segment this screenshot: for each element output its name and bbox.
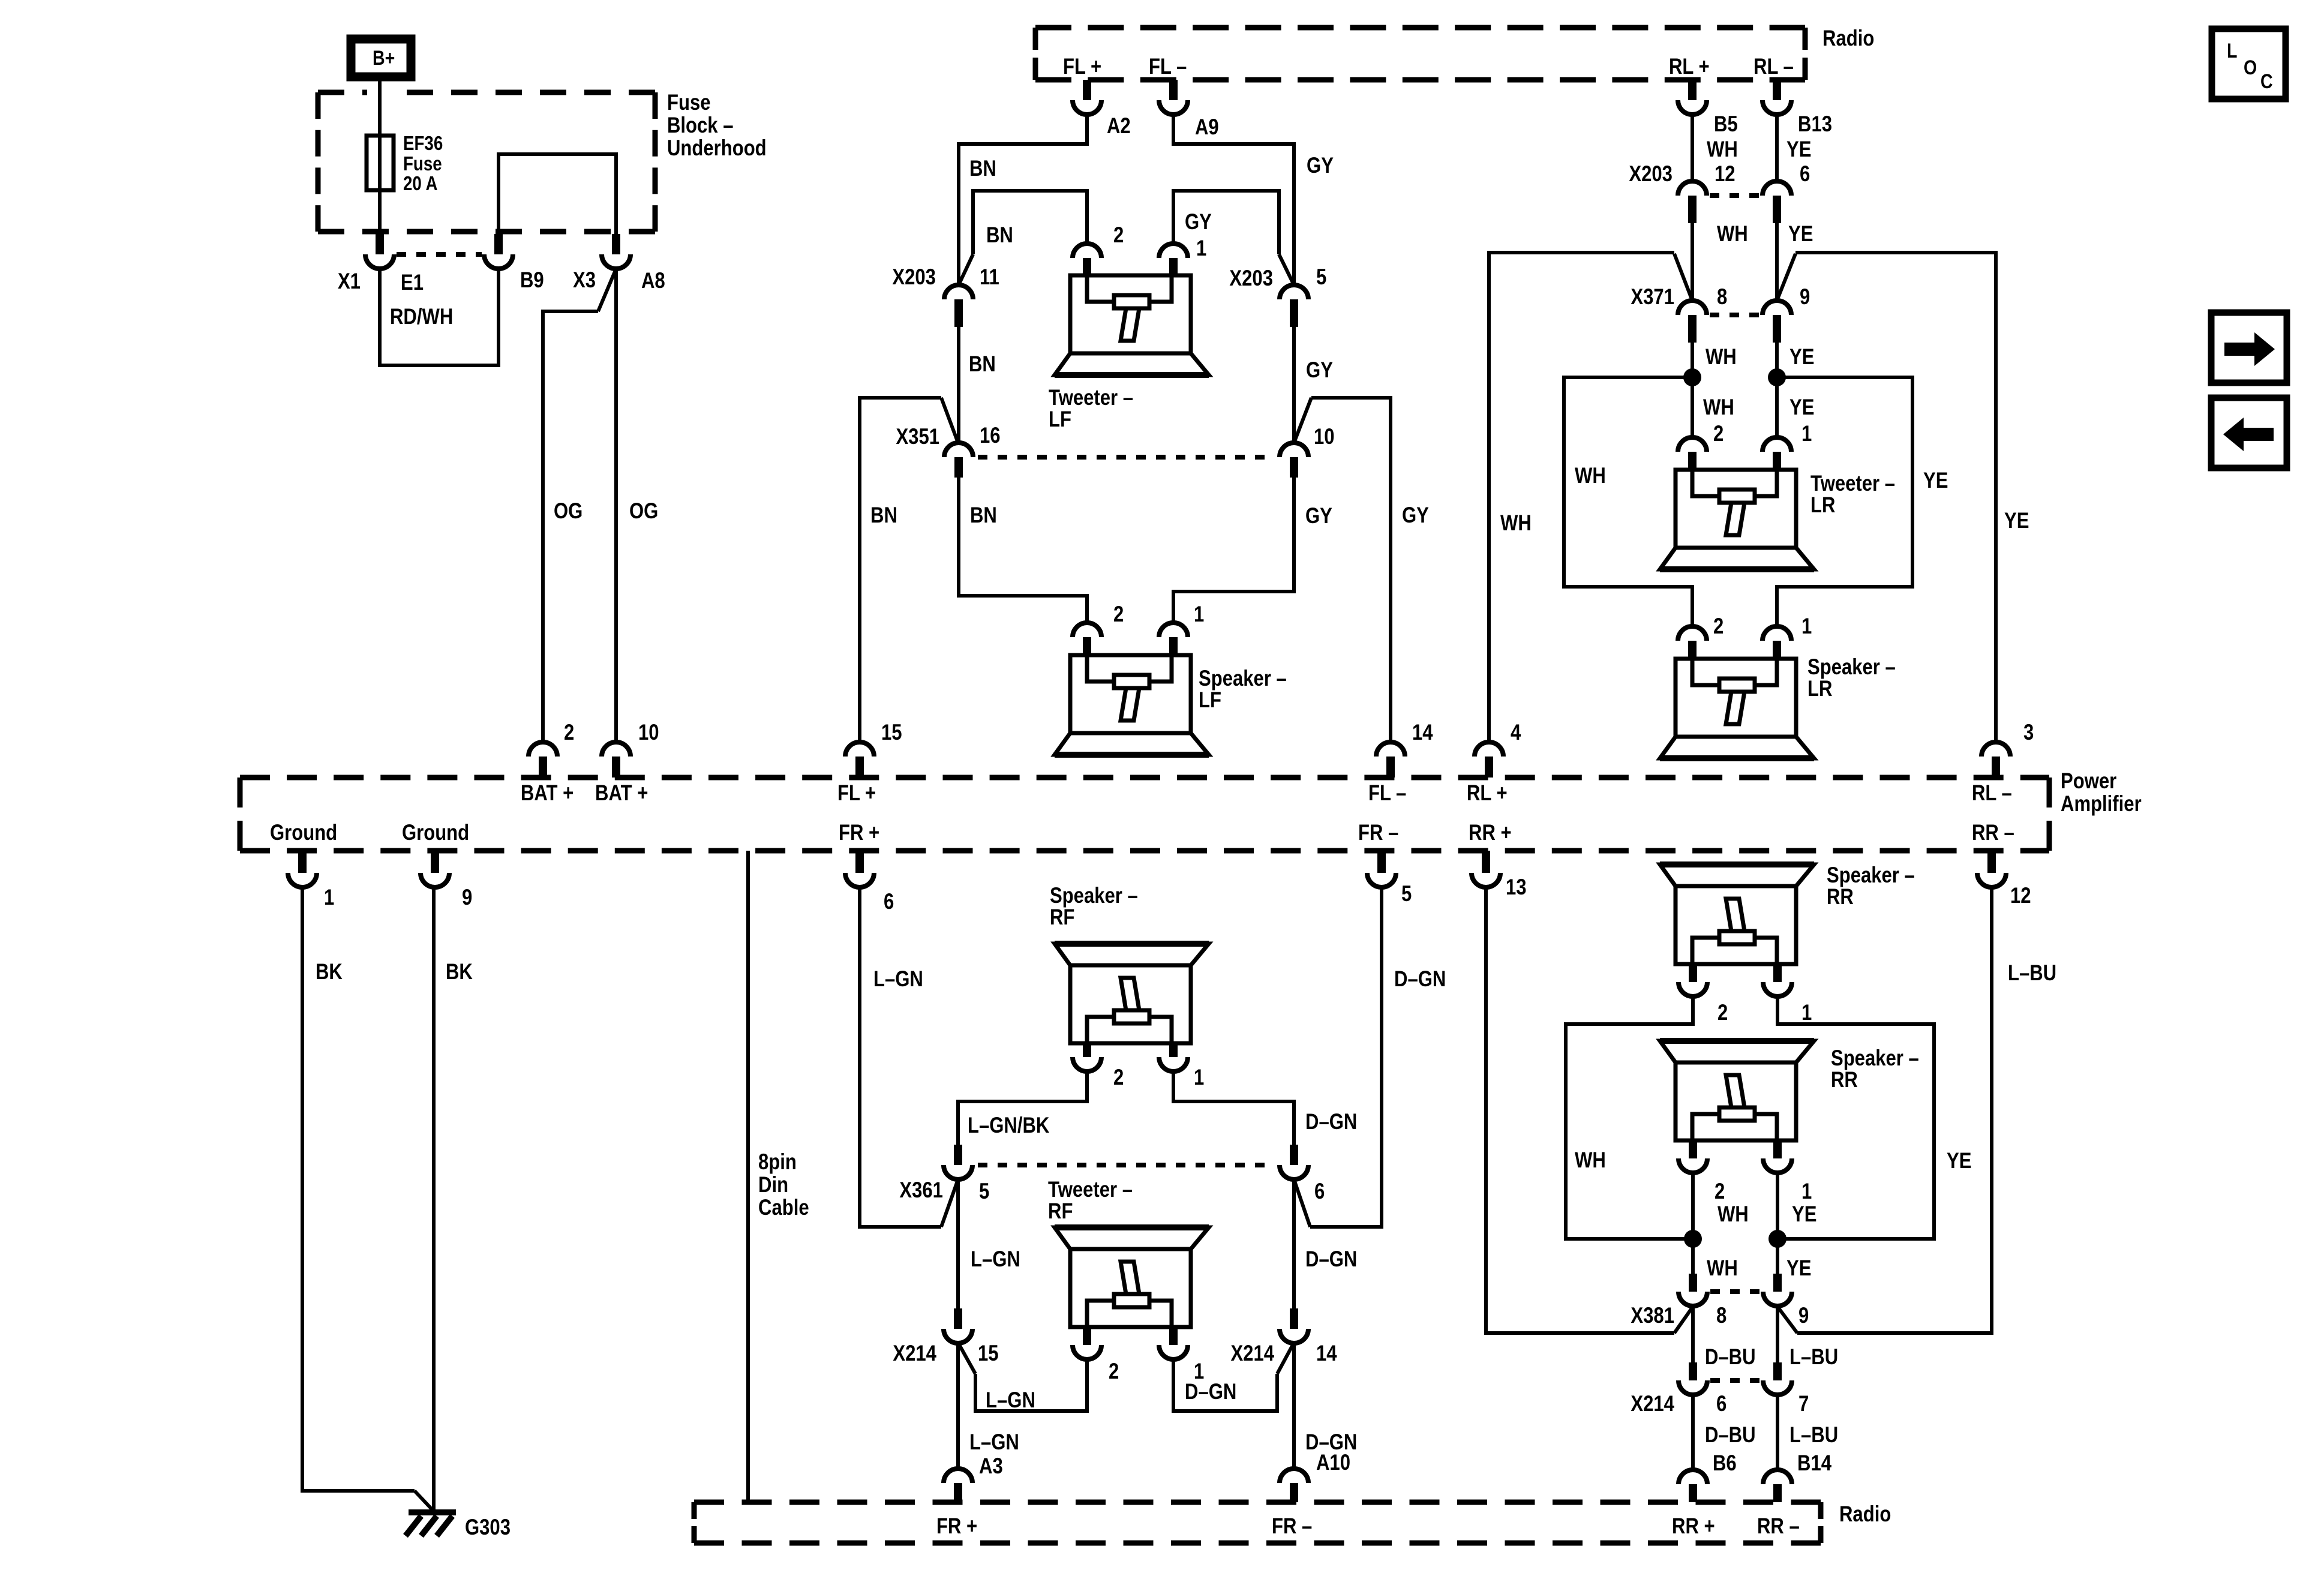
wire X203-6 to X371-9 YE — [1775, 223, 1779, 301]
junction dot WH lower — [1684, 1230, 1702, 1248]
wire fuse to X1 — [378, 190, 382, 234]
svg-text:15: 15 — [978, 1341, 999, 1366]
wire YE dot loop to speaker LR pin1 — [1777, 377, 1912, 626]
svg-text:Ground: Ground — [270, 821, 337, 845]
svg-text:BN: BN — [970, 503, 997, 528]
wire X351-10 to speaker LF pin1 — [1173, 478, 1294, 623]
speaker RR2 pin 2 connector — [1689, 1140, 1697, 1158]
svg-text:X381: X381 — [1631, 1304, 1674, 1328]
wire branch X214-14 to tweeter RF pin1 — [1277, 1343, 1294, 1374]
forward arrow box — [2211, 313, 2287, 383]
wire X203-5 to X351-10 GY — [1292, 327, 1296, 443]
speaker LR symbol — [1660, 659, 1814, 758]
connector X1-E1 cup — [365, 254, 394, 269]
svg-text:15: 15 — [881, 721, 902, 745]
radio pin B5 cup — [1678, 100, 1707, 115]
junction dot YE — [1768, 368, 1786, 386]
svg-text:Speaker –: Speaker – — [1050, 884, 1138, 908]
svg-text:D–GN: D–GN — [1305, 1247, 1357, 1272]
svg-text:BAT +: BAT + — [595, 781, 648, 806]
svg-text:5: 5 — [979, 1179, 989, 1204]
svg-text:Tweeter –: Tweeter – — [1049, 386, 1133, 410]
svg-text:L: L — [2227, 40, 2237, 62]
svg-text:YE: YE — [1789, 345, 1814, 370]
wire B13 to X203-6 YE — [1775, 115, 1779, 181]
svg-text:O: O — [2244, 56, 2257, 79]
svg-text:RR +: RR + — [1469, 821, 1512, 845]
svg-text:Radio: Radio — [1839, 1502, 1891, 1527]
back arrow box — [2211, 398, 2287, 468]
svg-text:RR: RR — [1827, 885, 1854, 909]
svg-text:5: 5 — [1401, 882, 1412, 906]
svg-text:GY: GY — [1305, 504, 1332, 529]
svg-text:RL +: RL + — [1669, 55, 1710, 79]
wire X351-16 to speaker LF pin2 — [959, 478, 1087, 623]
connector X351 pin 10 — [1280, 443, 1308, 457]
connector X203 pin 5 — [1280, 285, 1308, 299]
svg-text:X371: X371 — [1631, 285, 1674, 310]
wire X371-8 down WH — [1691, 343, 1694, 437]
connector X3-A8 cup — [602, 254, 630, 269]
connector X214 pin 14 — [1290, 1308, 1298, 1329]
wire RR2 pin1 to dot YE — [1776, 1173, 1779, 1239]
tweeter RF pin 1 connector — [1169, 1327, 1178, 1345]
wire X214-14 to radio A10 D-GN — [1292, 1343, 1296, 1469]
wire X381-9 to X214-7 L-BU — [1776, 1306, 1779, 1362]
svg-text:WH: WH — [1703, 395, 1734, 420]
tweeter LR symbol — [1660, 470, 1814, 569]
wire RR1 pin1 loop YE — [1777, 996, 1934, 1239]
svg-text:4: 4 — [1511, 721, 1521, 745]
svg-text:FR –: FR – — [1358, 821, 1398, 845]
svg-text:B+: B+ — [373, 47, 395, 70]
radio dashed box bottom — [694, 1502, 1821, 1543]
radio pin B5 stub — [1688, 80, 1697, 100]
svg-text:FR +: FR + — [839, 821, 879, 845]
svg-text:Power: Power — [2061, 769, 2116, 794]
svg-text:L–BU: L–BU — [1789, 1423, 1838, 1448]
radio pin A3 connector — [944, 1469, 972, 1483]
connector X203 pin 11 — [944, 285, 973, 299]
svg-text:RR +: RR + — [1672, 1514, 1715, 1539]
connector X371 pin 9 — [1762, 301, 1791, 315]
power amplifier dashed box — [240, 778, 2049, 851]
svg-text:2: 2 — [1718, 1001, 1728, 1025]
wire RD/WH loop E1 to B9 — [380, 269, 499, 365]
svg-text:14: 14 — [1412, 721, 1433, 745]
svg-text:Speaker –: Speaker – — [1199, 667, 1287, 691]
svg-text:8: 8 — [1716, 1304, 1727, 1328]
svg-text:C: C — [2260, 70, 2273, 93]
svg-text:2: 2 — [1715, 1179, 1725, 1204]
svg-text:L–BU: L–BU — [2008, 961, 2056, 986]
svg-text:Tweeter –: Tweeter – — [1048, 1178, 1133, 1202]
svg-text:WH: WH — [1575, 464, 1606, 488]
svg-text:OG: OG — [554, 499, 582, 524]
tweeter LF pin 1 connector — [1159, 244, 1188, 258]
wire speaker RF pin2 to X361-5 L-GN/BK — [958, 1071, 1087, 1145]
svg-text:A8: A8 — [641, 269, 665, 293]
svg-text:LF: LF — [1049, 407, 1071, 432]
connector X381 mating line — [1710, 1289, 1760, 1294]
connector X214 6-7 mating line — [1710, 1378, 1760, 1383]
svg-text:RL +: RL + — [1467, 781, 1508, 806]
svg-text:YE: YE — [1789, 395, 1814, 420]
svg-text:D–GN: D–GN — [1305, 1110, 1357, 1134]
wire dot to X381-9 YE — [1776, 1239, 1779, 1274]
svg-text:1: 1 — [1194, 1065, 1204, 1090]
svg-text:1: 1 — [1801, 614, 1812, 639]
svg-text:L–GN: L–GN — [873, 967, 923, 992]
wire dot to X381-8 WH — [1691, 1239, 1695, 1274]
svg-text:X3: X3 — [573, 268, 596, 293]
svg-text:X214: X214 — [1230, 1341, 1274, 1366]
wire ground pin9 BK — [432, 887, 436, 1509]
speaker LF pin 1 connector — [1159, 623, 1188, 637]
speaker LR pin 2 connector — [1678, 626, 1707, 641]
amp bottom pin 6 — [855, 851, 864, 873]
speaker LR pin 1 connector — [1762, 626, 1791, 641]
wire X214-15 to radio A3 L-GN — [956, 1343, 960, 1469]
svg-text:9: 9 — [1800, 285, 1810, 310]
svg-text:B14: B14 — [1797, 1451, 1831, 1476]
connector X351 mating line — [978, 455, 1275, 460]
svg-text:WH: WH — [1707, 1256, 1738, 1281]
svg-text:5: 5 — [1316, 265, 1326, 290]
wire B5 to X203-12 WH — [1691, 115, 1694, 181]
svg-text:D–BU: D–BU — [1705, 1423, 1756, 1448]
svg-text:11: 11 — [980, 265, 999, 290]
svg-text:7: 7 — [1798, 1392, 1809, 1416]
connector X361 pin 5 — [954, 1145, 962, 1165]
svg-text:X203: X203 — [1629, 162, 1673, 187]
tweeter RF symbol — [1055, 1227, 1209, 1327]
svg-text:1: 1 — [324, 885, 334, 910]
svg-text:B6: B6 — [1713, 1451, 1737, 1476]
LOC info box — [2212, 29, 2286, 99]
svg-text:Din: Din — [758, 1173, 788, 1197]
svg-text:D–BU: D–BU — [1705, 1345, 1756, 1370]
connector B9 pin stub — [494, 234, 503, 254]
svg-text:L–GN/BK: L–GN/BK — [968, 1113, 1050, 1138]
svg-text:X361: X361 — [899, 1178, 943, 1203]
speaker RR 2 symbol — [1660, 1041, 1814, 1140]
svg-text:RR –: RR – — [1757, 1514, 1800, 1539]
amp top pin 10 — [602, 742, 630, 757]
svg-text:A10: A10 — [1316, 1451, 1350, 1475]
svg-text:YE: YE — [1947, 1149, 1971, 1173]
junction dot YE lower — [1768, 1230, 1786, 1248]
svg-text:RF: RF — [1048, 1199, 1073, 1224]
svg-text:BN: BN — [969, 352, 996, 377]
fuse EF36 20A — [367, 136, 394, 190]
radio pin A9 cup — [1159, 100, 1188, 115]
svg-text:E1: E1 — [401, 271, 424, 295]
wire ground pin1 BK — [302, 887, 415, 1491]
wire amp FR- pin5 to X361-6 — [1310, 887, 1382, 1227]
wire B+ to fuse — [378, 81, 382, 136]
svg-text:RF: RF — [1050, 905, 1074, 930]
speaker RR1 pin 2 connector — [1689, 964, 1697, 982]
connector X371 mating line — [1710, 313, 1759, 317]
svg-text:12: 12 — [2010, 884, 2031, 908]
connector B9 cup — [484, 254, 513, 269]
svg-text:FL +: FL + — [837, 781, 876, 806]
svg-text:6: 6 — [1800, 162, 1810, 187]
tweeter LR pin 1 connector — [1762, 437, 1791, 452]
tweeter LR pin 2 connector — [1678, 437, 1707, 452]
svg-text:BN: BN — [986, 223, 1013, 248]
speaker LF pin 2 connector — [1073, 623, 1101, 637]
amp bottom pin 5 — [1377, 851, 1386, 873]
connector X203 pin 6 — [1762, 181, 1791, 196]
wire speaker RF pin1 to X361-6 D-GN — [1173, 1071, 1294, 1145]
svg-text:Block –: Block – — [667, 113, 734, 138]
radio pin B6 connector — [1679, 1470, 1707, 1484]
svg-text:X351: X351 — [896, 425, 939, 449]
wire A8 branch to BAT+ pin2 — [598, 269, 616, 311]
svg-text:LR: LR — [1810, 493, 1835, 518]
speaker RF symbol — [1055, 944, 1209, 1043]
svg-text:8pin: 8pin — [758, 1150, 797, 1175]
svg-text:YE: YE — [1788, 222, 1813, 247]
connector X203 pin 12 — [1678, 181, 1707, 196]
amp bottom pin 13 — [1482, 851, 1490, 873]
amp bottom pin 12 — [1987, 851, 1996, 873]
wire through fuse — [378, 136, 382, 190]
svg-text:GY: GY — [1307, 154, 1334, 178]
svg-text:WH: WH — [1575, 1148, 1606, 1173]
svg-text:1: 1 — [1801, 1001, 1812, 1025]
svg-text:WH: WH — [1718, 1202, 1749, 1227]
svg-text:FL –: FL – — [1149, 55, 1187, 79]
svg-text:BK: BK — [446, 960, 473, 984]
svg-text:YE: YE — [2004, 509, 2029, 533]
svg-text:L–GN: L–GN — [969, 1430, 1019, 1455]
svg-text:Speaker –: Speaker – — [1807, 655, 1896, 680]
svg-text:WH: WH — [1717, 222, 1748, 247]
svg-text:14: 14 — [1316, 1341, 1337, 1366]
wire branch X203-11 to tweeter LF pin2 — [959, 254, 973, 285]
svg-text:2: 2 — [564, 721, 574, 745]
wire branch X214-15 to tweeter RF pin2 — [958, 1343, 975, 1374]
amp top pin 15 — [845, 742, 874, 757]
svg-text:X214: X214 — [1631, 1392, 1674, 1416]
svg-text:LR: LR — [1807, 677, 1832, 701]
radio pin A10 connector — [1280, 1469, 1308, 1483]
wire amp RR- pin12 to X381-9 L-BU — [1797, 887, 1992, 1333]
connector X1 mating line — [397, 252, 482, 257]
svg-text:Cable: Cable — [758, 1196, 809, 1220]
svg-text:A9: A9 — [1195, 115, 1219, 140]
tweeter RF pin 2 connector — [1083, 1327, 1091, 1345]
wire X361-6 to X214-14 D-GN — [1292, 1179, 1296, 1308]
wire branch X351-10 to amp FL- pin14 — [1294, 398, 1311, 443]
radio pin B13 cup — [1762, 100, 1791, 115]
svg-text:RL –: RL – — [1753, 55, 1794, 79]
svg-text:WH: WH — [1500, 511, 1532, 536]
wire branch X371-9 to amp RL- pin3 — [1777, 254, 1795, 301]
wire 8pin Din cable — [746, 851, 750, 1502]
speaker RR 1 symbol — [1660, 864, 1814, 964]
svg-text:2: 2 — [1113, 223, 1124, 248]
svg-text:L–GN: L–GN — [986, 1388, 1035, 1413]
svg-text:Ground: Ground — [402, 821, 469, 845]
speaker RF pin 2 connector — [1083, 1043, 1091, 1057]
radio pin A2 cup — [1073, 100, 1101, 115]
svg-text:Amplifier: Amplifier — [2061, 792, 2142, 816]
wire X381-8 to X214-6 D-BU — [1691, 1306, 1695, 1362]
svg-text:BK: BK — [316, 960, 343, 984]
svg-text:L–BU: L–BU — [1789, 1345, 1838, 1370]
connector X371 pin 8 — [1678, 301, 1707, 315]
svg-text:RR –: RR – — [1972, 821, 2014, 845]
svg-text:Underhood: Underhood — [667, 136, 767, 161]
svg-text:GY: GY — [1185, 210, 1212, 235]
speaker RR1 pin 1 connector — [1773, 964, 1782, 982]
amp top pin 2 — [529, 742, 557, 757]
wire RR1 pin2 loop WH — [1566, 996, 1693, 1239]
wire X371-9 down YE — [1775, 343, 1779, 437]
connector X214 pin 7 — [1773, 1362, 1782, 1380]
radio pin B13 stub — [1773, 80, 1781, 100]
tweeter LF pin 2 connector — [1073, 244, 1101, 258]
connector X214 pin 6 — [1689, 1362, 1697, 1380]
svg-text:1: 1 — [1801, 1179, 1812, 1204]
svg-text:GY: GY — [1306, 358, 1333, 383]
svg-text:X203: X203 — [1229, 266, 1273, 291]
wire X203-11 to X351-16 BN — [957, 327, 960, 443]
wire RR2 pin2 to dot WH — [1691, 1173, 1695, 1239]
svg-text:D–GN: D–GN — [1185, 1380, 1236, 1404]
svg-text:10: 10 — [638, 721, 659, 745]
wire branch X351-16 to amp FL+ pin15 — [941, 398, 958, 443]
radio pin B14 connector — [1763, 1470, 1792, 1484]
wire branch X371-8 to amp RL+ pin4 — [1674, 254, 1692, 301]
svg-text:1: 1 — [1196, 236, 1206, 261]
wire X214-6 to radio B6 D-BU — [1691, 1395, 1695, 1470]
svg-text:BN: BN — [969, 157, 996, 181]
fuse block - underhood dashed box — [318, 92, 655, 232]
svg-text:YE: YE — [1786, 137, 1811, 162]
junction dot WH — [1683, 368, 1701, 386]
svg-text:6: 6 — [884, 890, 894, 914]
svg-text:2: 2 — [1113, 1065, 1124, 1090]
connector X381 pin 9 — [1773, 1274, 1782, 1292]
svg-text:EF36: EF36 — [403, 133, 443, 155]
svg-text:X1: X1 — [338, 269, 361, 294]
svg-text:YE: YE — [1923, 469, 1948, 493]
svg-text:YE: YE — [1792, 1202, 1816, 1227]
svg-text:6: 6 — [1716, 1392, 1727, 1416]
B+ battery feed box — [351, 39, 411, 77]
wire X214-7 to radio B14 L-BU — [1776, 1395, 1779, 1470]
svg-text:D–GN: D–GN — [1394, 967, 1446, 992]
svg-text:B5: B5 — [1714, 112, 1738, 137]
amp bottom pin 1 — [298, 851, 307, 873]
svg-text:2: 2 — [1109, 1359, 1119, 1384]
connector X214 pin 15 — [954, 1308, 962, 1329]
svg-text:RL –: RL – — [1972, 781, 2012, 806]
amp top pin 14 — [1376, 742, 1405, 757]
svg-text:Speaker –: Speaker – — [1831, 1046, 1919, 1071]
wire amp FR+ pin6 to X361-5 — [860, 887, 941, 1227]
svg-text:BAT +: BAT + — [521, 781, 574, 806]
svg-text:OG: OG — [629, 499, 658, 524]
speaker RR2 pin 1 connector — [1773, 1140, 1782, 1158]
svg-text:X214: X214 — [893, 1341, 936, 1366]
svg-text:9: 9 — [462, 885, 472, 910]
wire branch X203-5 to tweeter LF pin1 — [1279, 254, 1294, 285]
speaker LF symbol — [1055, 655, 1209, 755]
svg-text:G303: G303 — [465, 1515, 511, 1540]
svg-text:B9: B9 — [520, 268, 544, 293]
svg-text:10: 10 — [1314, 425, 1335, 449]
radio dashed box top — [1035, 28, 1805, 80]
svg-text:2: 2 — [1713, 614, 1724, 639]
wire X361-5 to X214-15 L-GN — [956, 1179, 960, 1308]
connector X361 mating line — [978, 1163, 1275, 1167]
wire internal loop — [499, 154, 616, 234]
svg-text:6: 6 — [1314, 1179, 1325, 1204]
svg-text:9: 9 — [1798, 1304, 1809, 1328]
connector X1-E1 pin stub — [376, 234, 384, 254]
svg-text:16: 16 — [980, 424, 1001, 448]
svg-text:20 A: 20 A — [403, 173, 438, 195]
wire A2 to X203-11 BN — [959, 115, 1087, 285]
svg-text:X203: X203 — [892, 265, 936, 290]
svg-text:FR +: FR + — [936, 1514, 977, 1539]
svg-text:3: 3 — [2023, 721, 2034, 745]
connector X3-A8 pin stub — [612, 234, 620, 254]
amp top pin 3 — [1981, 742, 2010, 757]
svg-text:1: 1 — [1194, 1359, 1204, 1384]
svg-text:B13: B13 — [1798, 112, 1832, 137]
svg-text:Speaker –: Speaker – — [1827, 863, 1915, 888]
svg-text:Fuse: Fuse — [667, 91, 711, 115]
svg-text:YE: YE — [1786, 1256, 1811, 1281]
svg-text:BN: BN — [870, 503, 897, 528]
wire A9 to X203-5 GY — [1173, 115, 1294, 285]
wire X203-12 to X371-8 WH — [1691, 223, 1694, 301]
connector X351 pin 16 — [944, 443, 973, 457]
svg-text:12: 12 — [1715, 162, 1736, 187]
svg-text:Tweeter –: Tweeter – — [1810, 472, 1895, 496]
svg-text:A2: A2 — [1107, 114, 1131, 139]
svg-text:LF: LF — [1199, 688, 1221, 713]
svg-text:FR –: FR – — [1272, 1514, 1312, 1539]
wire amp RR+ pin13 to X381-8 — [1486, 887, 1674, 1333]
svg-text:13: 13 — [1506, 875, 1527, 900]
svg-text:L–GN: L–GN — [971, 1247, 1020, 1272]
svg-text:Fuse: Fuse — [403, 153, 442, 175]
wire A8 to BAT+ pin10 — [614, 269, 618, 742]
svg-text:FL –: FL – — [1368, 781, 1406, 806]
svg-text:Radio: Radio — [1822, 26, 1874, 51]
connector X203 12-6 mating line — [1710, 193, 1759, 198]
svg-text:FL +: FL + — [1063, 55, 1101, 79]
tweeter LF symbol — [1055, 275, 1209, 375]
speaker RF pin 1 connector — [1169, 1043, 1178, 1057]
svg-text:A3: A3 — [979, 1454, 1003, 1479]
svg-text:WH: WH — [1706, 345, 1737, 370]
wire B+ through edge — [378, 84, 382, 138]
svg-text:8: 8 — [1717, 285, 1727, 310]
connector X381 pin 8 — [1689, 1274, 1697, 1292]
radio pin A9 stub — [1169, 80, 1178, 100]
svg-text:1: 1 — [1801, 422, 1812, 446]
amp bottom pin 9 — [431, 851, 439, 873]
